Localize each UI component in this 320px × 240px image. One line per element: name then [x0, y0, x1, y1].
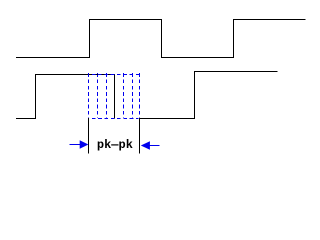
- jitter region top dashed edge: [88, 74, 140, 76]
- upper waveform: [16, 20, 305, 58]
- jitter region left dashed edge: [88, 73, 90, 118]
- svg-text:pk—pk: pk—pk: [97, 138, 133, 152]
- jitter region bottom dashed edge: [88, 118, 138, 120]
- left measurement extension line: [88, 118, 90, 153]
- right measurement extension line: [139, 118, 141, 153]
- ghost edge dashed line 3: [123, 73, 125, 118]
- left arrow head: [80, 140, 89, 149]
- ghost edge dashed line 1: [97, 73, 99, 118]
- jitter region right dashed edge: [139, 73, 141, 118]
- right arrow shaft: [149, 145, 160, 147]
- lower waveform right part: [139, 72, 278, 119]
- ghost edge dashed line 4: [132, 73, 134, 118]
- ghost edge dashed line 2: [106, 73, 108, 118]
- lower waveform left part with nominal falling edge: [16, 75, 114, 119]
- left arrow shaft: [70, 144, 83, 146]
- right arrow head: [141, 141, 150, 150]
